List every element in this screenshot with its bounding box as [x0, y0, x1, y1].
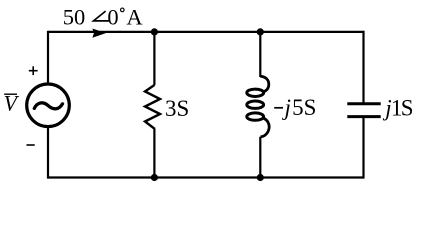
wire left lower — [47, 127, 49, 179]
svg-text:50: 50 — [63, 5, 86, 30]
capacitor plate bottom — [347, 115, 380, 118]
svg-text:j5S: j5S — [282, 95, 317, 120]
label -j5S — [274, 107, 283, 109]
inductor bottom hook — [260, 118, 269, 137]
node dot bottom-left — [151, 174, 158, 181]
node dot top-right (inductor junction) — [257, 28, 264, 35]
svg-text:A: A — [126, 5, 143, 30]
capacitor plate top — [347, 102, 380, 105]
current arrow — [92, 29, 105, 38]
wire top — [48, 31, 364, 33]
inductor top hook — [260, 76, 269, 92]
svg-text:0: 0 — [107, 5, 118, 30]
wire inductor bottom — [259, 137, 261, 178]
plus sign — [29, 66, 38, 75]
source sine wave — [34, 103, 62, 109]
wire inductor top — [259, 32, 261, 77]
wire right upper — [362, 31, 364, 103]
wire resistor bottom — [153, 129, 155, 178]
node dot top-left (resistor junction) — [151, 28, 158, 35]
wire left upper — [47, 31, 49, 85]
inductor loop 3 — [247, 113, 264, 120]
resistor R zigzag — [145, 85, 160, 129]
svg-text:3S: 3S — [165, 96, 189, 121]
svg-text:j1S: j1S — [382, 95, 413, 120]
inductor loop 2 — [247, 101, 264, 108]
wire resistor top — [153, 32, 155, 85]
node dot bottom-right — [257, 174, 264, 181]
inductor loop 1 — [247, 89, 264, 96]
source V: circle — [27, 84, 70, 127]
wire right lower — [362, 118, 364, 179]
minus sign — [27, 144, 35, 146]
wire bottom — [48, 176, 364, 178]
